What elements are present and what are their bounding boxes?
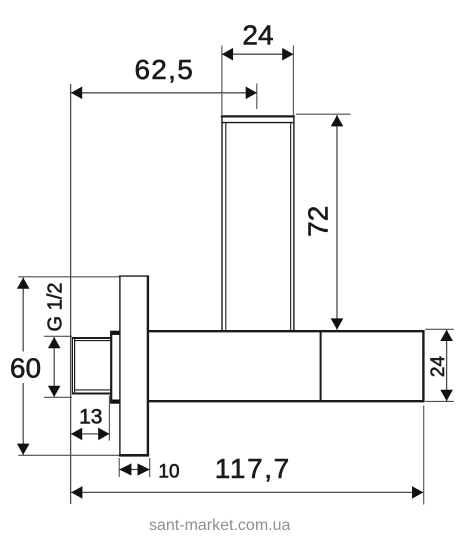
- svg-text:24: 24: [242, 19, 273, 50]
- svg-text:13: 13: [79, 406, 102, 429]
- svg-text:24: 24: [428, 356, 449, 378]
- svg-text:72: 72: [303, 206, 334, 237]
- svg-text:10: 10: [158, 462, 179, 483]
- svg-text:60: 60: [10, 352, 41, 383]
- svg-text:117,7: 117,7: [215, 453, 291, 484]
- svg-text:62,5: 62,5: [134, 54, 194, 85]
- svg-text:sant-market.com.ua: sant-market.com.ua: [149, 517, 290, 534]
- svg-text:G 1/2: G 1/2: [45, 283, 67, 332]
